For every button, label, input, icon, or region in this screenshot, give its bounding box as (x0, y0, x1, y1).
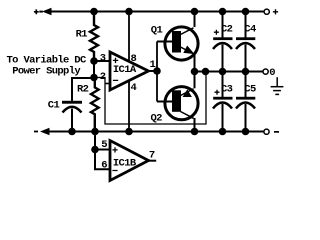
wire base line Q1-Q2 (156, 42, 158, 102)
node R2-bottom rail junction (91, 128, 99, 136)
wire pin 4 to bottom rail (128, 81, 130, 132)
svg-text:Q2: Q2 (151, 113, 163, 125)
wire IC1A output stub (149, 70, 158, 72)
node output rail junction (191, 68, 199, 76)
node output/base junction (153, 67, 161, 75)
node C3 bottom rail junction (219, 128, 227, 136)
node feedback mid rail junction (202, 68, 210, 76)
wire node A to node B (93, 61, 95, 78)
svg-text:R2: R2 (77, 83, 89, 95)
node C2 top rail junction (219, 8, 227, 16)
node C4 top rail junction (242, 8, 250, 16)
transistor Q1 (157, 27, 198, 60)
node C1-bottom rail junction (68, 128, 76, 136)
svg-text:4: 4 (131, 82, 137, 94)
wire Q1 collector to top rail (194, 12, 196, 28)
capacitor C3 (213, 72, 233, 132)
svg-text:8: 8 (131, 53, 137, 65)
svg-text:7: 7 (149, 149, 155, 161)
wire top rail arrow (39, 8, 51, 15)
svg-text:3: 3 (100, 53, 106, 65)
node C5 bottom rail junction (242, 128, 250, 136)
wire bottom rail (47, 131, 264, 133)
node pin8 top rail junction (125, 8, 133, 16)
node C2/C3 mid rail junction (219, 68, 227, 76)
resistor R1 (90, 12, 98, 62)
wire pin5 stub (95, 149, 111, 151)
node pin4 bottom rail junction (125, 128, 133, 136)
terminal 0 (mid right) (263, 69, 268, 74)
transistor Q2 (157, 87, 198, 120)
wire bottom rail arrow (40, 128, 50, 135)
wire Q1 emitter to output rail (194, 55, 196, 72)
svg-text:Power Supply: Power Supply (12, 65, 81, 77)
capacitor C1 (62, 101, 82, 132)
terminal + (top right) (264, 9, 269, 14)
svg-text:C1: C1 (48, 100, 60, 112)
svg-text:IC1A: IC1A (113, 64, 137, 76)
wire pin 8 to top rail (128, 12, 130, 62)
node Q1 collector top rail junction (191, 8, 199, 16)
svg-text:C3: C3 (221, 83, 233, 95)
wire output mid rail (195, 71, 264, 73)
wire pin3 stub (94, 60, 110, 62)
wire IC1B input column (94, 132, 96, 150)
svg-text:6: 6 (101, 159, 107, 171)
capacitor C4 (236, 12, 255, 72)
node C4/C5 mid rail junction (242, 68, 250, 76)
wire top rail (48, 11, 264, 13)
svg-text:5: 5 (101, 139, 107, 151)
svg-text:IC1B: IC1B (113, 158, 137, 170)
wire Q2 collector to bottom rail (194, 118, 196, 132)
ground (271, 77, 284, 94)
svg-text:C5: C5 (244, 83, 256, 95)
svg-text:0: 0 (269, 67, 275, 79)
svg-text:C2: C2 (221, 23, 233, 35)
node R1 top rail junction (90, 8, 98, 16)
terminal - (bottom right) (264, 129, 269, 134)
svg-text:R1: R1 (76, 29, 88, 41)
op-amp IC1B (110, 141, 149, 181)
resistor R2 (91, 78, 99, 132)
node + supply label top-left (34, 9, 39, 14)
node A (junction R1 / pin3) (90, 57, 98, 65)
label To Variable DC Power Supply (7, 54, 87, 77)
wire Q2 emitter to output rail (194, 72, 196, 89)
node - supply label bottom-left (34, 131, 38, 133)
capacitor C5 (236, 72, 255, 132)
node B (junction R2 / C1 / pin2 feedback) (90, 74, 98, 82)
op-amp IC1A (110, 52, 149, 90)
capacitor C2 (213, 12, 233, 72)
wire to pin6 (95, 150, 111, 170)
node Q2 collector bottom rail junction (191, 128, 199, 136)
wire feedback loop (pin2 to output node) (94, 72, 206, 125)
node IC1B input junction (91, 146, 99, 154)
svg-text:Q1: Q1 (151, 25, 163, 37)
svg-text:2: 2 (100, 71, 106, 83)
wire node B to C1 (72, 78, 94, 101)
svg-text:C4: C4 (244, 23, 256, 35)
wire IC1B output stub (149, 160, 157, 162)
wire pin2 stub (105, 83, 111, 85)
